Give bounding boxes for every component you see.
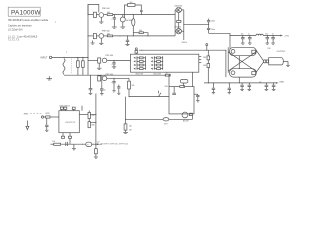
svg-text:2SJ201: 2SJ201 xyxy=(174,27,180,29)
resistor R12 xyxy=(128,78,130,81)
wire cross 2 xyxy=(228,52,256,71)
svg-text:1k: 1k xyxy=(166,73,168,75)
svg-text:T1, T2, T3: T1, T2, T3 xyxy=(8,39,20,42)
capacitor C6 xyxy=(113,60,115,62)
notes text block xyxy=(8,19,49,42)
wire driver left rail xyxy=(174,10,176,36)
svg-text:L6: L6 xyxy=(259,81,261,83)
svg-text:680: 680 xyxy=(92,125,95,127)
op-amp U1 LM3876 xyxy=(59,111,79,133)
ground xyxy=(120,26,125,28)
transistor Q6 xyxy=(98,76,101,81)
title box xyxy=(8,7,40,16)
svg-text:+75V: +75V xyxy=(284,35,290,37)
capacitor C26 xyxy=(65,142,67,146)
capacitor C17 xyxy=(212,83,214,88)
capacitor C31 xyxy=(117,86,120,88)
svg-text:MOSFET: IRFP240, IRFP9240: MOSFET: IRFP240, IRFP9240 xyxy=(101,144,129,146)
resistor R23 xyxy=(79,114,88,116)
mute pins xyxy=(62,133,64,137)
ladder block 2 xyxy=(153,56,155,70)
transistor Q5 xyxy=(88,59,98,61)
svg-text:10n: 10n xyxy=(265,33,268,35)
wire xyxy=(184,23,209,25)
capacitor C10 xyxy=(208,19,210,21)
svg-text:INPUT: INPUT xyxy=(41,58,48,60)
capacitor C5 xyxy=(127,36,129,40)
wire top loop xyxy=(88,5,99,15)
capacitor C4 xyxy=(140,9,143,11)
ladder block 1 xyxy=(136,56,138,70)
svg-text:100n: 100n xyxy=(211,20,215,22)
capacitor C22 xyxy=(273,83,275,85)
ground xyxy=(112,26,117,28)
ladder rows block1 xyxy=(134,57,145,70)
svg-text:GND: GND xyxy=(279,82,284,84)
inductor L2 xyxy=(126,118,164,120)
svg-text:BC546: BC546 xyxy=(126,20,132,22)
ground xyxy=(73,144,75,148)
svg-text:PNP 040: PNP 040 xyxy=(102,8,110,10)
resistor R6 xyxy=(104,35,107,37)
svg-text:2SK1530: 2SK1530 xyxy=(174,5,182,7)
resistor R26 xyxy=(51,143,54,145)
svg-text:5V6: 5V6 xyxy=(203,57,206,59)
wire mid vertical xyxy=(125,97,127,124)
capacitor C20 xyxy=(248,83,250,85)
svg-text:HiFi MOSFET power amplifier mo: HiFi MOSFET power amplifier module xyxy=(8,19,49,22)
transistor U3 driver bottom xyxy=(176,29,181,34)
wire rails left of T1 T2 xyxy=(225,50,227,77)
wire dashed xyxy=(30,113,42,115)
svg-text:PNP 040: PNP 040 xyxy=(102,30,110,32)
wire sense xyxy=(129,96,169,98)
resistor R2 xyxy=(77,57,79,60)
svg-text:R41: R41 xyxy=(165,86,168,88)
svg-text:22k: 22k xyxy=(132,85,135,87)
ground bus xyxy=(204,82,276,84)
resistor R3 xyxy=(82,57,84,60)
node junction xyxy=(148,35,149,36)
svg-text:+12: +12 xyxy=(97,142,100,144)
resistor R25 xyxy=(95,149,98,154)
svg-text:0R22 5W: 0R22 5W xyxy=(153,74,161,76)
wire left rail xyxy=(87,5,89,76)
resistor R30 xyxy=(190,113,193,115)
svg-text:OUTPUT: OUTPUT xyxy=(277,51,287,53)
capacitor C23 xyxy=(173,87,175,93)
svg-text:10k: 10k xyxy=(52,141,55,143)
svg-text:PNP 040: PNP 040 xyxy=(106,55,114,57)
svg-text:C30: C30 xyxy=(267,48,270,50)
capacitor C18 xyxy=(228,83,230,88)
limiter box xyxy=(169,87,194,114)
svg-text:BD139: BD139 xyxy=(183,120,189,122)
svg-text:0R22 5W: 0R22 5W xyxy=(136,74,144,76)
wire rail xyxy=(95,94,97,149)
capacitor C15 xyxy=(272,36,274,38)
wire rails xyxy=(183,83,185,87)
ground xyxy=(94,156,98,158)
svg-text:PNP 040: PNP 040 xyxy=(106,74,114,76)
capacitor C8 shunt xyxy=(90,75,92,88)
capacitor C12 xyxy=(242,36,244,38)
resistor R21 xyxy=(64,107,67,109)
resistor R15 between drivers xyxy=(178,13,180,21)
capacitor C19 xyxy=(241,83,243,85)
svg-text:Cap/trim per transistor: Cap/trim per transistor xyxy=(8,25,32,28)
power device T2 xyxy=(229,69,256,77)
svg-text:540: 540 xyxy=(139,30,142,32)
power device T1 xyxy=(229,47,256,55)
svg-text:540: 540 xyxy=(107,12,110,14)
ground xyxy=(47,78,53,80)
inductor L5 xyxy=(256,34,263,35)
svg-text:1W: 1W xyxy=(129,129,132,131)
svg-text:PA1000W: PA1000W xyxy=(11,9,41,16)
svg-text:5V6: 5V6 xyxy=(203,65,206,67)
resistor R27 xyxy=(124,124,127,130)
node a2 xyxy=(135,48,137,50)
capacitor C11 xyxy=(207,27,210,29)
resistor R20 xyxy=(60,107,63,109)
capacitor C2 xyxy=(113,15,115,18)
cable coil L xyxy=(63,59,65,75)
svg-text:4R7: 4R7 xyxy=(164,123,167,125)
resistor R24 xyxy=(88,122,90,128)
svg-text:1n: 1n xyxy=(104,90,106,92)
svg-text:REM: REM xyxy=(24,114,29,116)
svg-text:540: 540 xyxy=(107,33,110,35)
zener chain D1 D2 xyxy=(206,44,208,46)
svg-text:R44 1k: R44 1k xyxy=(182,42,188,44)
capacitor C24 right xyxy=(194,93,198,95)
ground xyxy=(99,21,103,23)
transistor Q10 xyxy=(182,112,188,118)
svg-text:ST: ST xyxy=(87,145,89,147)
svg-text:100: 100 xyxy=(129,126,132,128)
ground xyxy=(92,41,94,43)
capacitor C14 xyxy=(266,36,268,38)
svg-text:1k5: 1k5 xyxy=(130,2,133,4)
resistor R28 xyxy=(72,107,75,109)
connector P1 xyxy=(86,142,92,146)
resistor R7 top loop xyxy=(125,5,128,18)
wire xyxy=(52,56,88,58)
module pins right xyxy=(199,56,202,58)
transistor Q2 xyxy=(88,35,93,37)
wire xyxy=(107,77,129,79)
resistor R22 xyxy=(46,116,50,118)
input jack J1 xyxy=(49,56,51,58)
capacitor C13 xyxy=(249,36,251,38)
ground xyxy=(99,42,103,44)
ground xyxy=(97,67,101,69)
resistor R8 xyxy=(133,32,139,34)
wire driver right rail xyxy=(183,10,185,40)
wire top supply xyxy=(139,49,226,51)
wire bottom rail xyxy=(64,74,166,76)
ground xyxy=(123,131,128,133)
box bias xyxy=(180,79,188,83)
transistor U2 driver top xyxy=(176,7,181,12)
probe symbol xyxy=(26,121,28,127)
svg-text:L5 220uH 5/A: L5 220uH 5/A xyxy=(8,29,23,32)
transistor Q9 xyxy=(159,93,161,97)
resistor R13 xyxy=(165,74,167,76)
capacitor C3 electrolytic xyxy=(132,15,134,19)
resistor R5 xyxy=(104,14,107,16)
node IN2 xyxy=(41,116,43,118)
svg-text:1u: 1u xyxy=(248,33,250,35)
capacitor C9 shunt xyxy=(101,75,103,88)
svg-text:LM3876TF: LM3876TF xyxy=(65,122,76,124)
wire xyxy=(238,56,240,69)
svg-text:1u: 1u xyxy=(272,33,274,35)
capacitor C21 xyxy=(265,83,267,85)
output module box xyxy=(131,54,199,72)
transistor Q1 xyxy=(88,14,93,16)
svg-text:22k: 22k xyxy=(92,115,95,117)
ladder rows block2 xyxy=(152,57,163,70)
capacitor C16 output xyxy=(256,50,263,60)
transistor Q3 xyxy=(122,15,124,17)
wire xyxy=(209,32,230,34)
capacitor C25 xyxy=(46,118,48,125)
supply rail +V xyxy=(230,35,256,37)
svg-text:220R 220R 1k: 220R 220R 1k xyxy=(59,105,70,107)
capacitor C7 xyxy=(113,78,115,81)
wire xyxy=(107,59,130,61)
svg-text:100n: 100n xyxy=(211,29,215,31)
wire cross 1 xyxy=(228,52,256,72)
